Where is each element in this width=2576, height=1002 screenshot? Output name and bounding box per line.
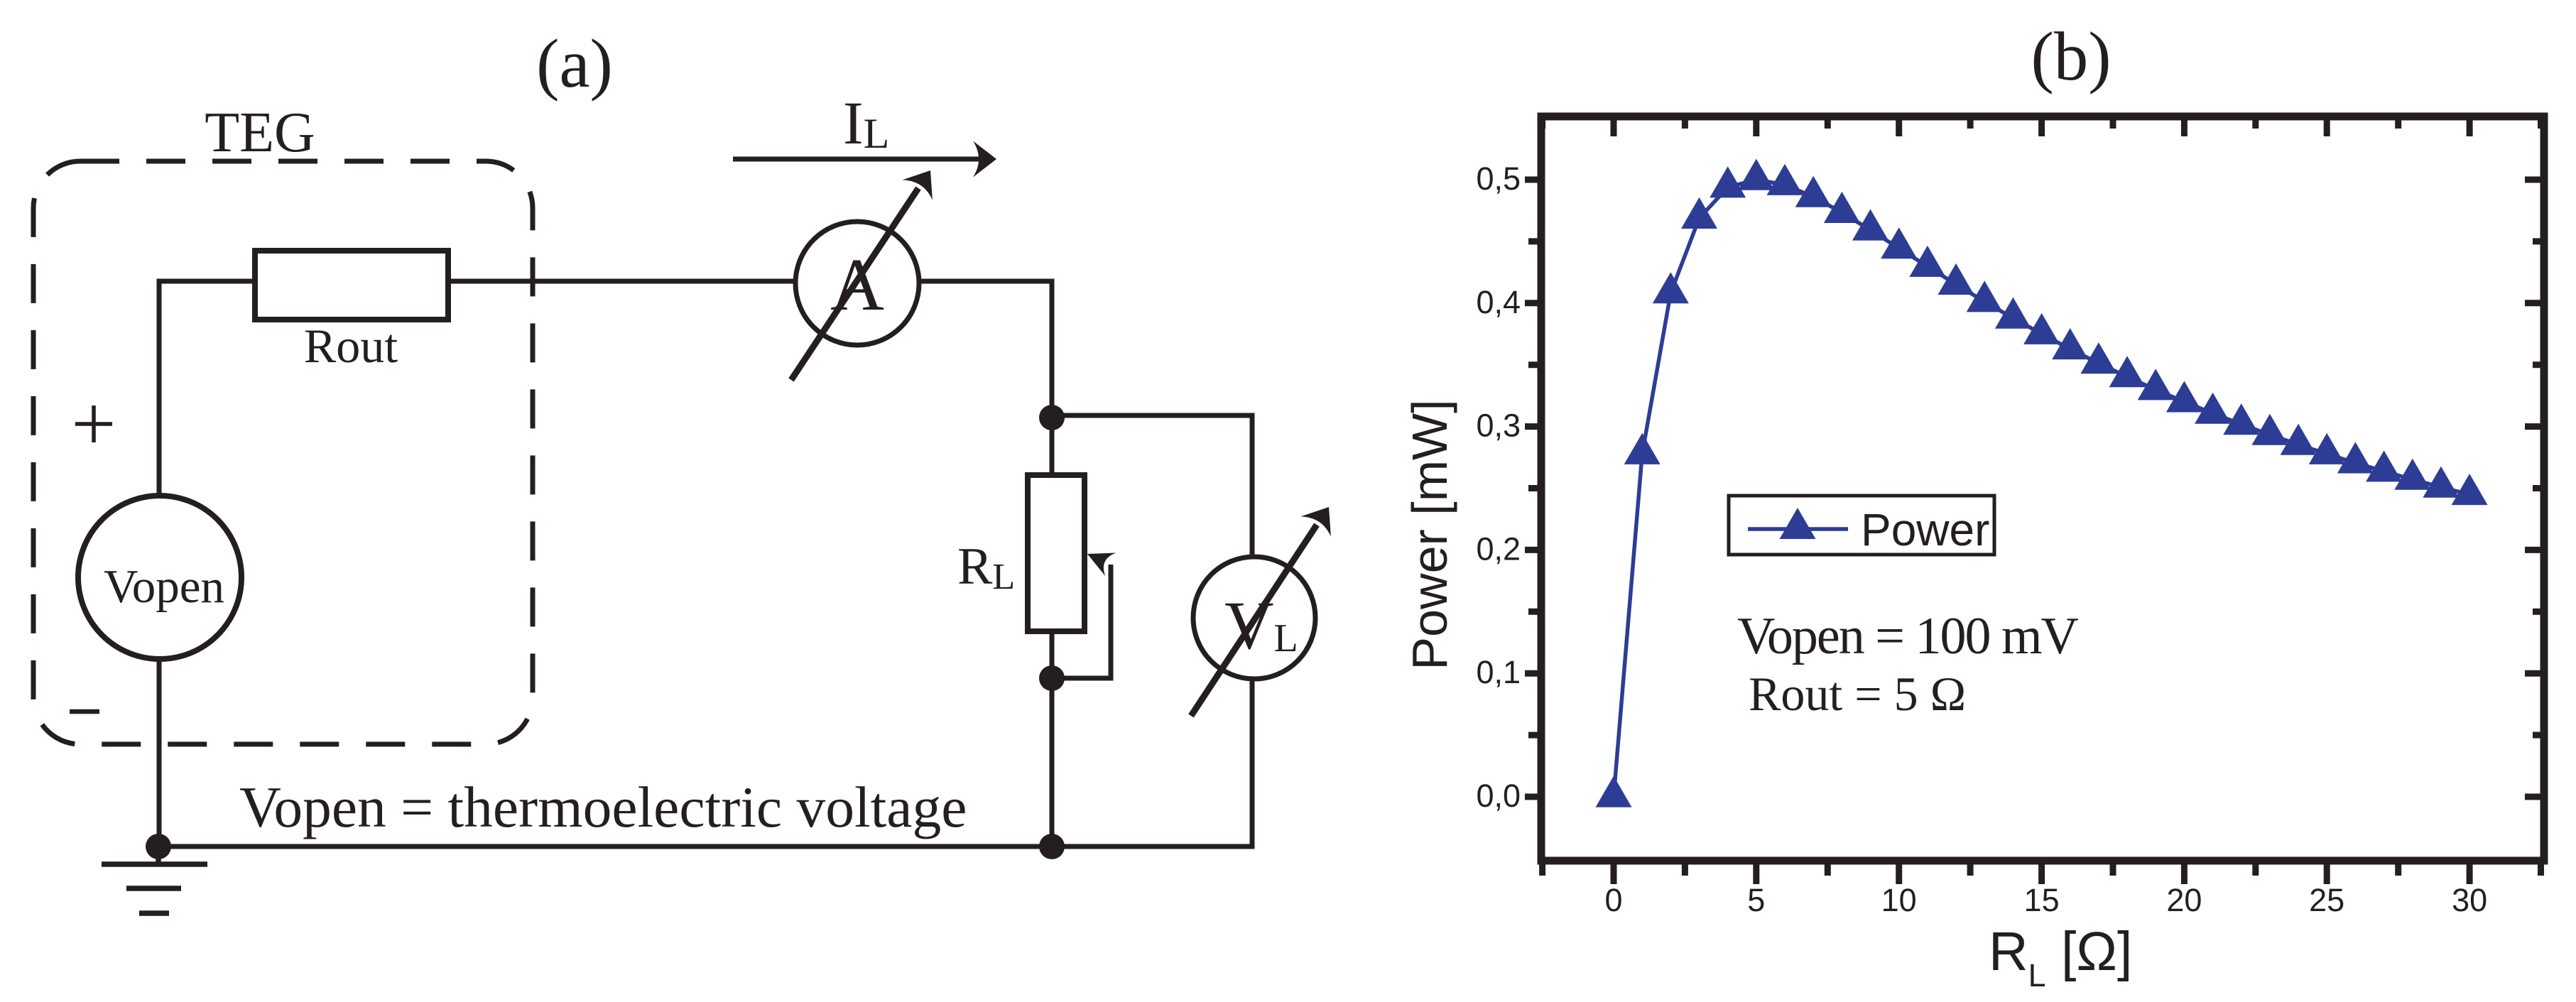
y tick labels — [1476, 160, 1521, 814]
y-axis major ticks (left, outside) — [1525, 794, 1541, 800]
svg-text:Rout = 5 Ω: Rout = 5 Ω — [1749, 667, 1966, 721]
svg-text:5: 5 — [1747, 882, 1765, 918]
y-axis minor ticks (left) — [1528, 732, 1541, 739]
svg-text:0,0: 0,0 — [1476, 778, 1521, 814]
svg-text:0,2: 0,2 — [1476, 530, 1521, 567]
wire: VL bottom to bottom rail — [1250, 677, 1255, 849]
svg-text:Power: Power — [1861, 504, 1989, 555]
bottom rail wire — [158, 844, 1254, 849]
ammeter needle arrow — [791, 188, 918, 380]
x-axis major ticks (top, inside) — [1611, 116, 1617, 136]
svg-text:(a): (a) — [536, 26, 613, 102]
wire: Rout right to ammeter — [448, 279, 796, 284]
wire: Vopen bottom to ground node — [157, 659, 162, 846]
wire: RL bottom to lower node — [1050, 631, 1055, 678]
svg-text:Vopen = 100 mV: Vopen = 100 mV — [1737, 607, 2079, 665]
ammeter U=A — [795, 222, 919, 345]
minus polarity symbol — [70, 709, 99, 714]
svg-text:TEG: TEG — [205, 102, 315, 164]
x-axis minor ticks (top) — [1539, 116, 1545, 129]
svg-text:10: 10 — [1881, 882, 1917, 918]
svg-text:(b): (b) — [2031, 18, 2111, 94]
x-axis minor ticks (bottom) — [1539, 861, 1545, 876]
svg-text:0,3: 0,3 — [1476, 408, 1521, 444]
wire: lower node to bottom rail — [1050, 678, 1055, 846]
svg-text:0,5: 0,5 — [1476, 160, 1521, 197]
resistor Rout — [255, 251, 448, 320]
plus polarity symbol — [75, 405, 112, 442]
y-axis major ticks (right, inside) — [2525, 794, 2544, 800]
x-axis major ticks (bottom, outside) — [1611, 861, 1617, 884]
svg-text:20: 20 — [2166, 882, 2202, 918]
voltmeter needle arrow — [1191, 525, 1317, 716]
node B (wiper node) — [1039, 665, 1065, 691]
voltmeter VL — [1193, 557, 1315, 679]
wire: node to VL branch — [1052, 415, 1252, 558]
legend box — [1729, 496, 1994, 555]
svg-text:0,1: 0,1 — [1476, 654, 1521, 690]
plot frame — [1541, 116, 2544, 861]
current arrow IL — [733, 157, 981, 162]
y-axis minor ticks (right) — [2533, 732, 2544, 739]
legend marker — [1780, 508, 1816, 539]
wiper arm with arrow into RL — [1052, 565, 1111, 678]
data markers Power — [1596, 159, 2488, 807]
svg-text:Rout: Rout — [304, 319, 398, 373]
svg-text:0,4: 0,4 — [1476, 284, 1521, 320]
svg-text:30: 30 — [2452, 882, 2487, 918]
load resistor RL (variable) — [1028, 475, 1085, 631]
svg-text:15: 15 — [2024, 882, 2060, 918]
ground node — [146, 834, 171, 859]
wire: Vopen top to Rout left — [159, 281, 255, 496]
voltage source Vopen — [78, 496, 241, 659]
node C (bottom junction) — [1039, 834, 1065, 859]
wire: ammeter right, corner down to node — [918, 281, 1052, 418]
wire: node down to RL — [1050, 418, 1055, 475]
svg-text:Vopen: Vopen — [104, 560, 224, 613]
ground symbol — [102, 846, 207, 913]
svg-text:25: 25 — [2309, 882, 2344, 918]
data line Power — [1614, 180, 2469, 797]
svg-text:0: 0 — [1604, 882, 1622, 918]
node A (top junction) — [1039, 405, 1065, 430]
TEG dashed box — [33, 161, 533, 744]
x tick labels — [1604, 882, 2487, 918]
svg-text:Power [mW]: Power [mW] — [1402, 399, 1457, 670]
axis ticks — [1525, 116, 2544, 884]
svg-text:Vopen = thermoelectric voltage: Vopen = thermoelectric voltage — [239, 775, 967, 839]
legend sample line — [1748, 527, 1848, 531]
